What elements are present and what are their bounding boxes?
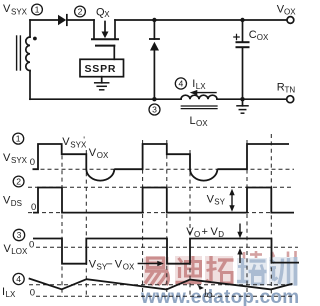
svg-text:C: C <box>249 29 257 41</box>
svg-text:OX: OX <box>257 33 269 42</box>
svg-text:OX: OX <box>284 8 296 17</box>
svg-text:': ' <box>83 135 85 145</box>
svg-text:V: V <box>62 136 70 148</box>
svg-text:D: D <box>218 230 224 239</box>
svg-text:1: 1 <box>35 5 40 15</box>
svg-text:OX: OX <box>196 119 208 128</box>
svg-text:V: V <box>3 3 11 15</box>
svg-text:2: 2 <box>78 7 83 17</box>
svg-text:−: − <box>106 258 112 270</box>
svg-text:SY: SY <box>214 198 225 207</box>
svg-text:0: 0 <box>30 287 35 298</box>
svg-text:3: 3 <box>17 230 22 240</box>
svg-text:V: V <box>89 147 97 159</box>
svg-text:SYX: SYX <box>11 8 28 17</box>
svg-text:4: 4 <box>16 274 21 284</box>
svg-text:X: X <box>104 10 110 19</box>
svg-text:TN: TN <box>285 85 296 94</box>
svg-text:DS: DS <box>11 199 22 208</box>
svg-text:LX: LX <box>196 82 206 91</box>
svg-text:V: V <box>3 152 11 164</box>
svg-text:2: 2 <box>16 177 21 187</box>
svg-text:0: 0 <box>31 202 36 213</box>
svg-text:SYX: SYX <box>11 156 28 165</box>
svg-text:V: V <box>4 243 12 255</box>
svg-text:V: V <box>115 258 123 270</box>
svg-text:SSPR: SSPR <box>85 63 117 75</box>
svg-text:OX: OX <box>123 263 135 272</box>
svg-text:V: V <box>3 195 11 207</box>
svg-text:V: V <box>211 226 219 238</box>
svg-text:O: O <box>207 290 213 299</box>
svg-text:4: 4 <box>179 79 184 89</box>
svg-text:0: 0 <box>30 157 35 168</box>
svg-text:L: L <box>190 115 196 127</box>
svg-text:1: 1 <box>16 134 21 144</box>
svg-text:0: 0 <box>29 240 34 251</box>
svg-text:3: 3 <box>152 105 157 115</box>
svg-text:LX: LX <box>6 290 16 299</box>
svg-text:LOX: LOX <box>11 247 28 256</box>
svg-text:O: O <box>194 230 200 239</box>
svg-text:OX: OX <box>97 151 109 160</box>
svg-text:+: + <box>202 226 208 238</box>
